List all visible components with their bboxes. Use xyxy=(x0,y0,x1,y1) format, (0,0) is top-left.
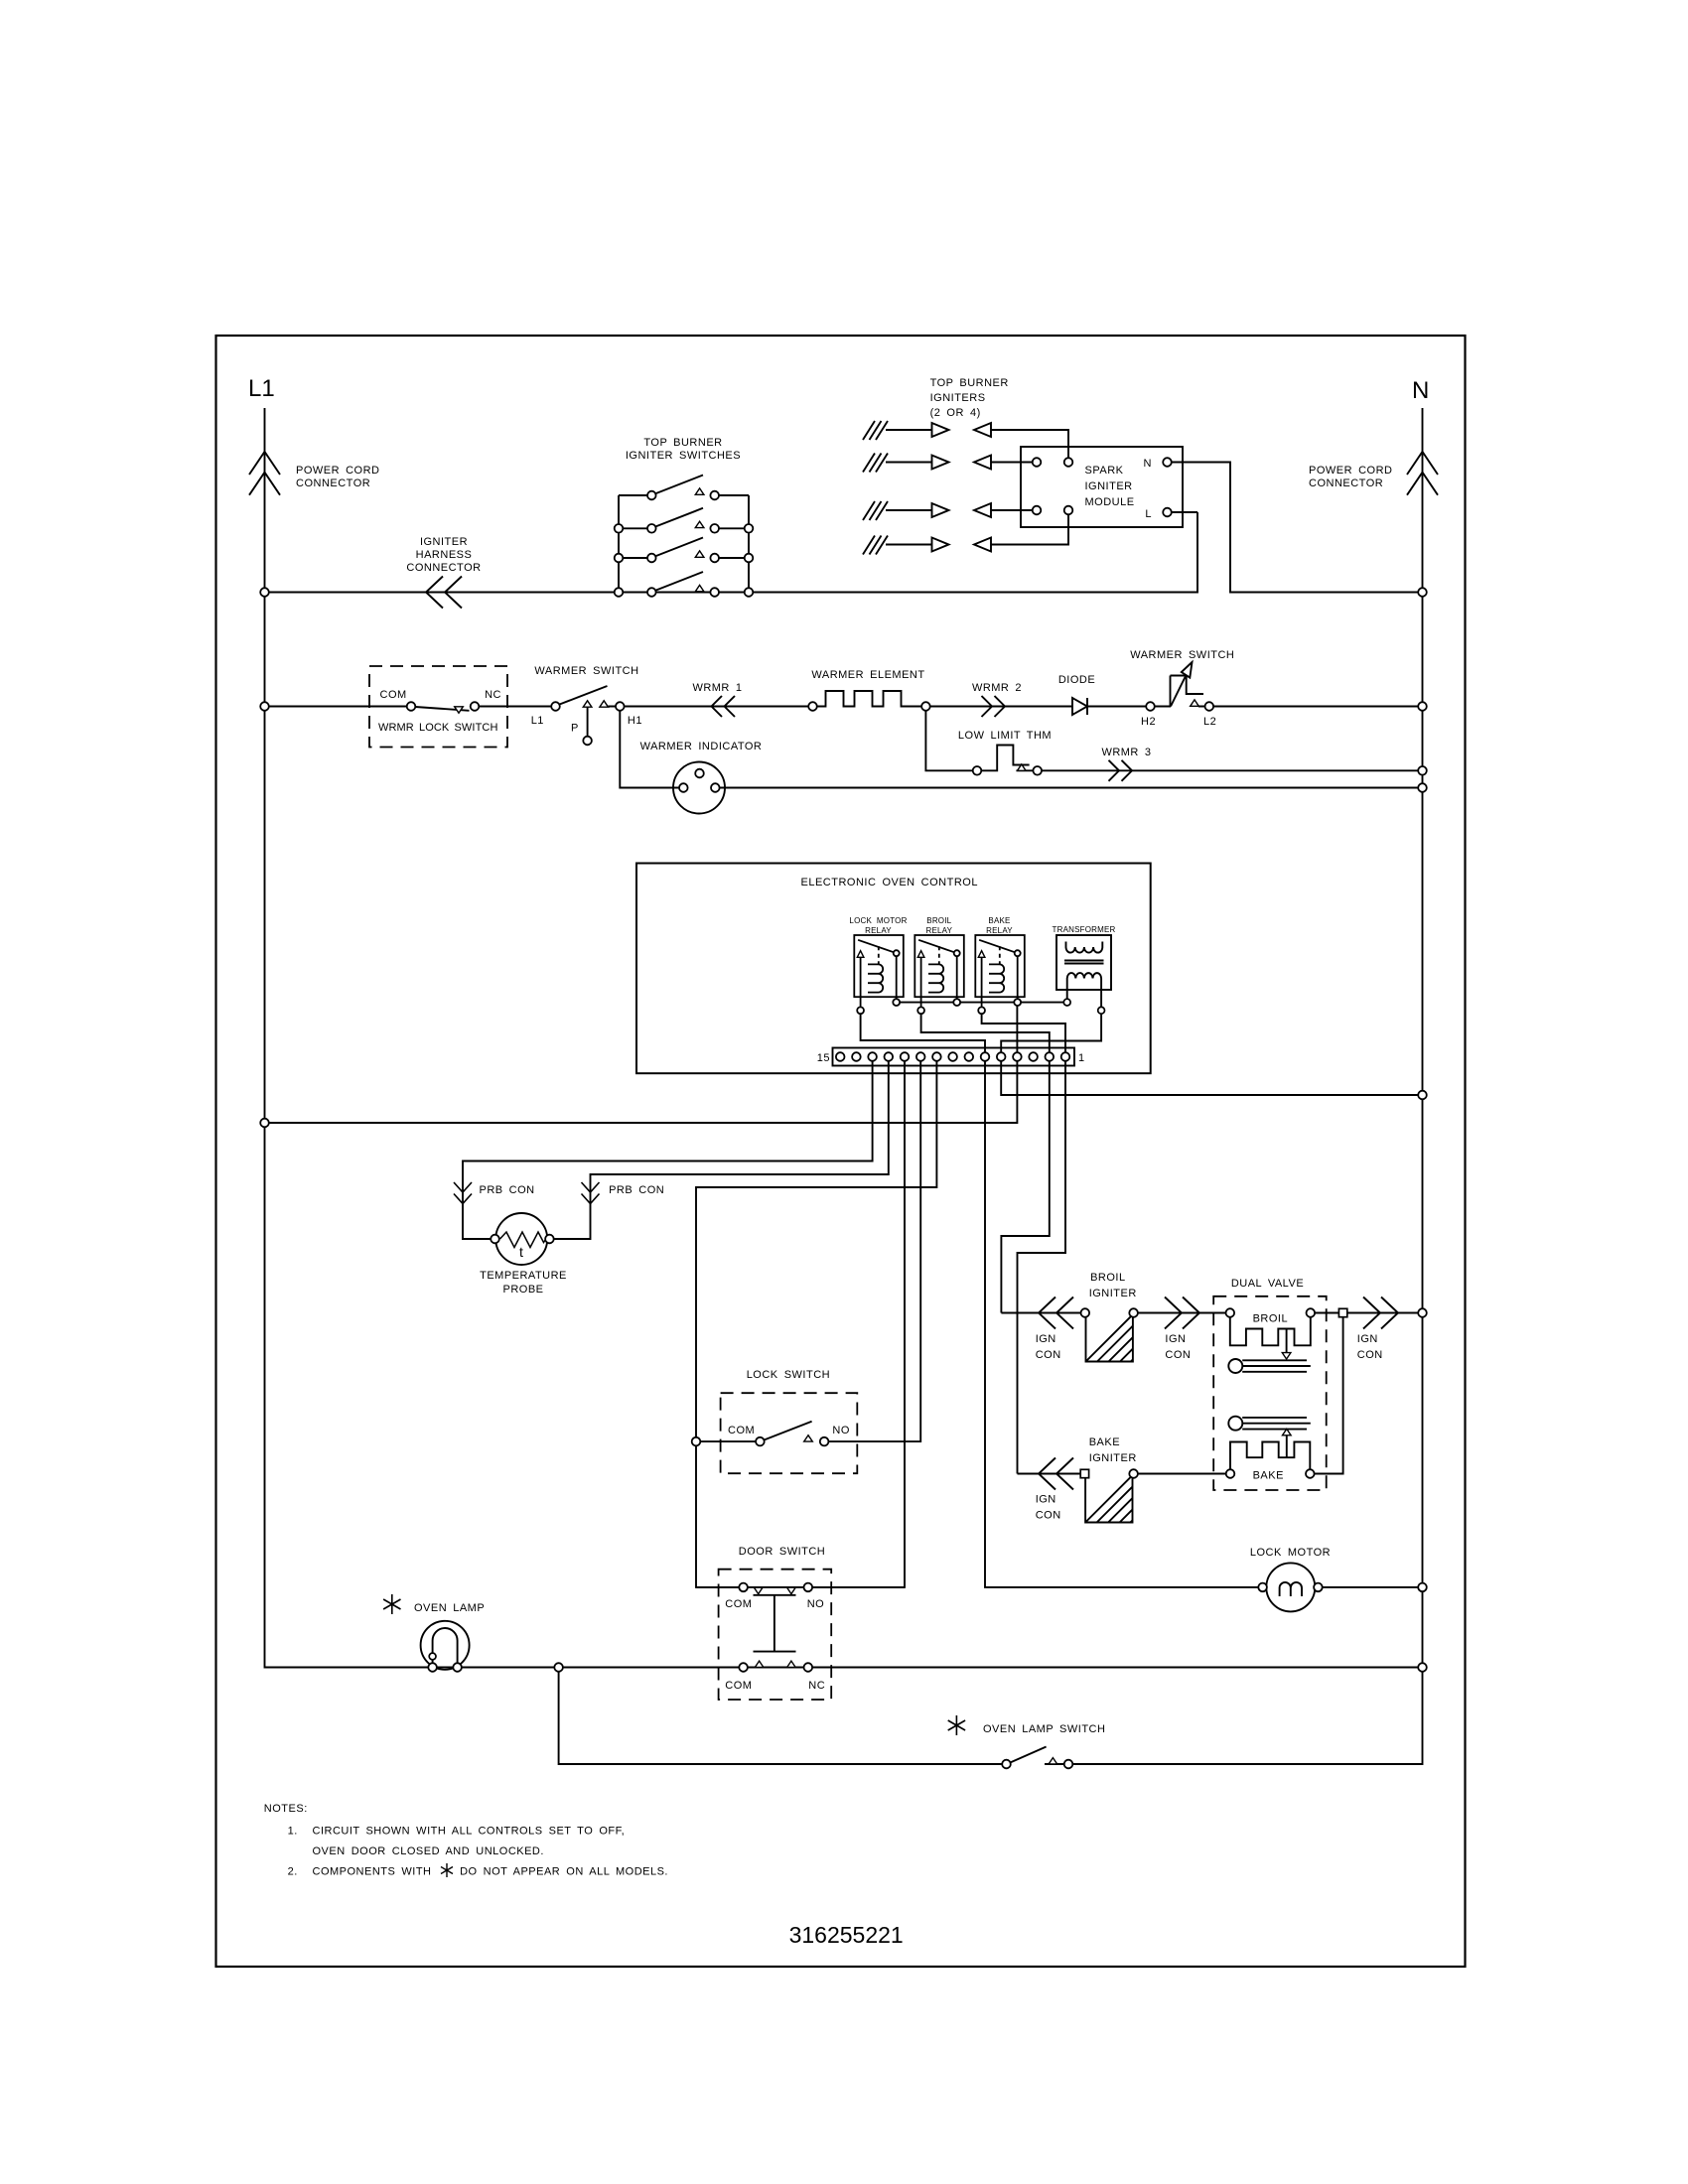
svg-text:TOP BURNER: TOP BURNER xyxy=(930,377,1009,389)
svg-text:IGNITER: IGNITER xyxy=(1089,1288,1137,1299)
svg-text:COM: COM xyxy=(725,1680,752,1692)
svg-text:TEMPERATURE: TEMPERATURE xyxy=(480,1270,567,1282)
svg-text:DOOR SWITCH: DOOR SWITCH xyxy=(739,1546,825,1558)
svg-text:IGN: IGN xyxy=(1357,1333,1378,1345)
svg-text:WRMR 2: WRMR 2 xyxy=(972,682,1022,694)
svg-text:NOTES:: NOTES: xyxy=(264,1803,308,1815)
svg-text:(2 OR 4): (2 OR 4) xyxy=(930,407,981,419)
svg-text:DIODE: DIODE xyxy=(1058,674,1095,686)
svg-text:IGNITER: IGNITER xyxy=(420,536,468,548)
svg-text:IGNITER: IGNITER xyxy=(1089,1452,1137,1464)
svg-text:PROBE: PROBE xyxy=(502,1284,543,1296)
svg-text:POWER CORD: POWER CORD xyxy=(296,465,380,477)
svg-text:H1: H1 xyxy=(628,715,642,727)
svg-text:L1: L1 xyxy=(531,715,544,727)
svg-text:BROIL: BROIL xyxy=(926,916,951,925)
svg-text:NC: NC xyxy=(485,689,501,701)
svg-text:316255221: 316255221 xyxy=(789,1922,904,1948)
svg-text:CON: CON xyxy=(1036,1349,1061,1361)
svg-text:WRMR 1: WRMR 1 xyxy=(692,682,742,694)
svg-text:P: P xyxy=(571,723,579,735)
svg-text:POWER CORD: POWER CORD xyxy=(1309,465,1393,477)
svg-text:RELAY: RELAY xyxy=(986,926,1013,935)
svg-text:OVEN DOOR CLOSED AND UNLOCKED.: OVEN DOOR CLOSED AND UNLOCKED. xyxy=(313,1845,544,1857)
svg-text:IGN: IGN xyxy=(1036,1333,1056,1345)
svg-text:TRANSFORMER: TRANSFORMER xyxy=(1053,925,1116,934)
svg-text:NC: NC xyxy=(808,1680,825,1692)
svg-text:CIRCUIT SHOWN WITH ALL CONTROL: CIRCUIT SHOWN WITH ALL CONTROLS SET TO O… xyxy=(313,1826,626,1838)
svg-text:BROIL: BROIL xyxy=(1253,1313,1289,1325)
svg-text:CONNECTOR: CONNECTOR xyxy=(1309,478,1383,489)
svg-text:CON: CON xyxy=(1357,1349,1383,1361)
svg-text:ELECTRONIC OVEN CONTROL: ELECTRONIC OVEN CONTROL xyxy=(801,877,978,888)
svg-text:BAKE: BAKE xyxy=(988,916,1010,925)
svg-text:t: t xyxy=(519,1244,523,1260)
svg-text:DO NOT APPEAR ON ALL MODELS.: DO NOT APPEAR ON ALL MODELS. xyxy=(460,1866,668,1878)
svg-text:L: L xyxy=(1145,508,1152,520)
svg-text:WARMER SWITCH: WARMER SWITCH xyxy=(534,665,638,677)
svg-text:BAKE: BAKE xyxy=(1089,1436,1120,1448)
svg-text:WARMER INDICATOR: WARMER INDICATOR xyxy=(640,741,763,752)
svg-text:LOW LIMIT THM: LOW LIMIT THM xyxy=(958,730,1052,742)
svg-text:OVEN LAMP: OVEN LAMP xyxy=(414,1602,485,1614)
svg-text:2.: 2. xyxy=(288,1866,298,1878)
svg-text:15: 15 xyxy=(817,1052,830,1064)
svg-text:RELAY: RELAY xyxy=(865,926,892,935)
svg-text:CON: CON xyxy=(1165,1349,1191,1361)
svg-text:L1: L1 xyxy=(248,375,275,402)
svg-text:PRB CON: PRB CON xyxy=(609,1184,664,1196)
svg-text:COM: COM xyxy=(725,1598,752,1610)
svg-text:IGNITER: IGNITER xyxy=(1085,480,1133,492)
svg-text:WARMER ELEMENT: WARMER ELEMENT xyxy=(811,669,924,681)
svg-text:IGNITERS: IGNITERS xyxy=(930,392,986,404)
svg-text:COM: COM xyxy=(380,689,407,701)
svg-text:N: N xyxy=(1412,377,1429,404)
svg-text:BROIL: BROIL xyxy=(1090,1272,1126,1284)
svg-text:WARMER SWITCH: WARMER SWITCH xyxy=(1130,649,1234,661)
svg-text:CONNECTOR: CONNECTOR xyxy=(296,478,370,489)
svg-text:IGN: IGN xyxy=(1036,1494,1056,1506)
svg-text:OVEN LAMP SWITCH: OVEN LAMP SWITCH xyxy=(983,1723,1105,1735)
svg-text:BAKE: BAKE xyxy=(1253,1470,1284,1482)
svg-text:CON: CON xyxy=(1036,1510,1061,1522)
svg-text:1: 1 xyxy=(1078,1052,1085,1064)
svg-text:WRMR 3: WRMR 3 xyxy=(1101,747,1151,758)
svg-text:COMPONENTS WITH: COMPONENTS WITH xyxy=(313,1866,432,1878)
svg-text:HARNESS: HARNESS xyxy=(416,549,473,561)
svg-text:CONNECTOR: CONNECTOR xyxy=(406,562,481,574)
svg-text:MODULE: MODULE xyxy=(1085,496,1135,508)
svg-text:NO: NO xyxy=(832,1425,850,1436)
svg-text:N: N xyxy=(1144,458,1152,470)
svg-text:SPARK: SPARK xyxy=(1085,465,1124,477)
svg-text:DUAL VALVE: DUAL VALVE xyxy=(1231,1278,1304,1290)
svg-text:TOP BURNER: TOP BURNER xyxy=(643,437,722,449)
svg-text:PRB CON: PRB CON xyxy=(480,1184,535,1196)
svg-text:LOCK SWITCH: LOCK SWITCH xyxy=(747,1369,830,1381)
svg-text:COM: COM xyxy=(728,1425,755,1436)
svg-text:RELAY: RELAY xyxy=(925,926,952,935)
svg-text:H2: H2 xyxy=(1141,716,1156,728)
svg-text:L2: L2 xyxy=(1203,716,1216,728)
svg-text:1.: 1. xyxy=(288,1826,298,1838)
svg-text:WRMR LOCK SWITCH: WRMR LOCK SWITCH xyxy=(378,722,497,734)
svg-text:LOCK MOTOR: LOCK MOTOR xyxy=(1250,1547,1331,1559)
svg-text:LOCK MOTOR: LOCK MOTOR xyxy=(849,916,907,925)
svg-text:IGNITER SWITCHES: IGNITER SWITCHES xyxy=(626,450,741,462)
svg-text:NO: NO xyxy=(807,1598,825,1610)
svg-text:IGN: IGN xyxy=(1165,1333,1186,1345)
